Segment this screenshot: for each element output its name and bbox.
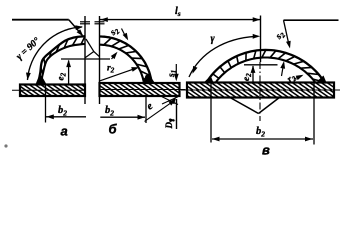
svg-text:а: а — [61, 124, 68, 139]
svg-text:в: в — [262, 143, 270, 158]
svg-text:б: б — [109, 122, 118, 137]
